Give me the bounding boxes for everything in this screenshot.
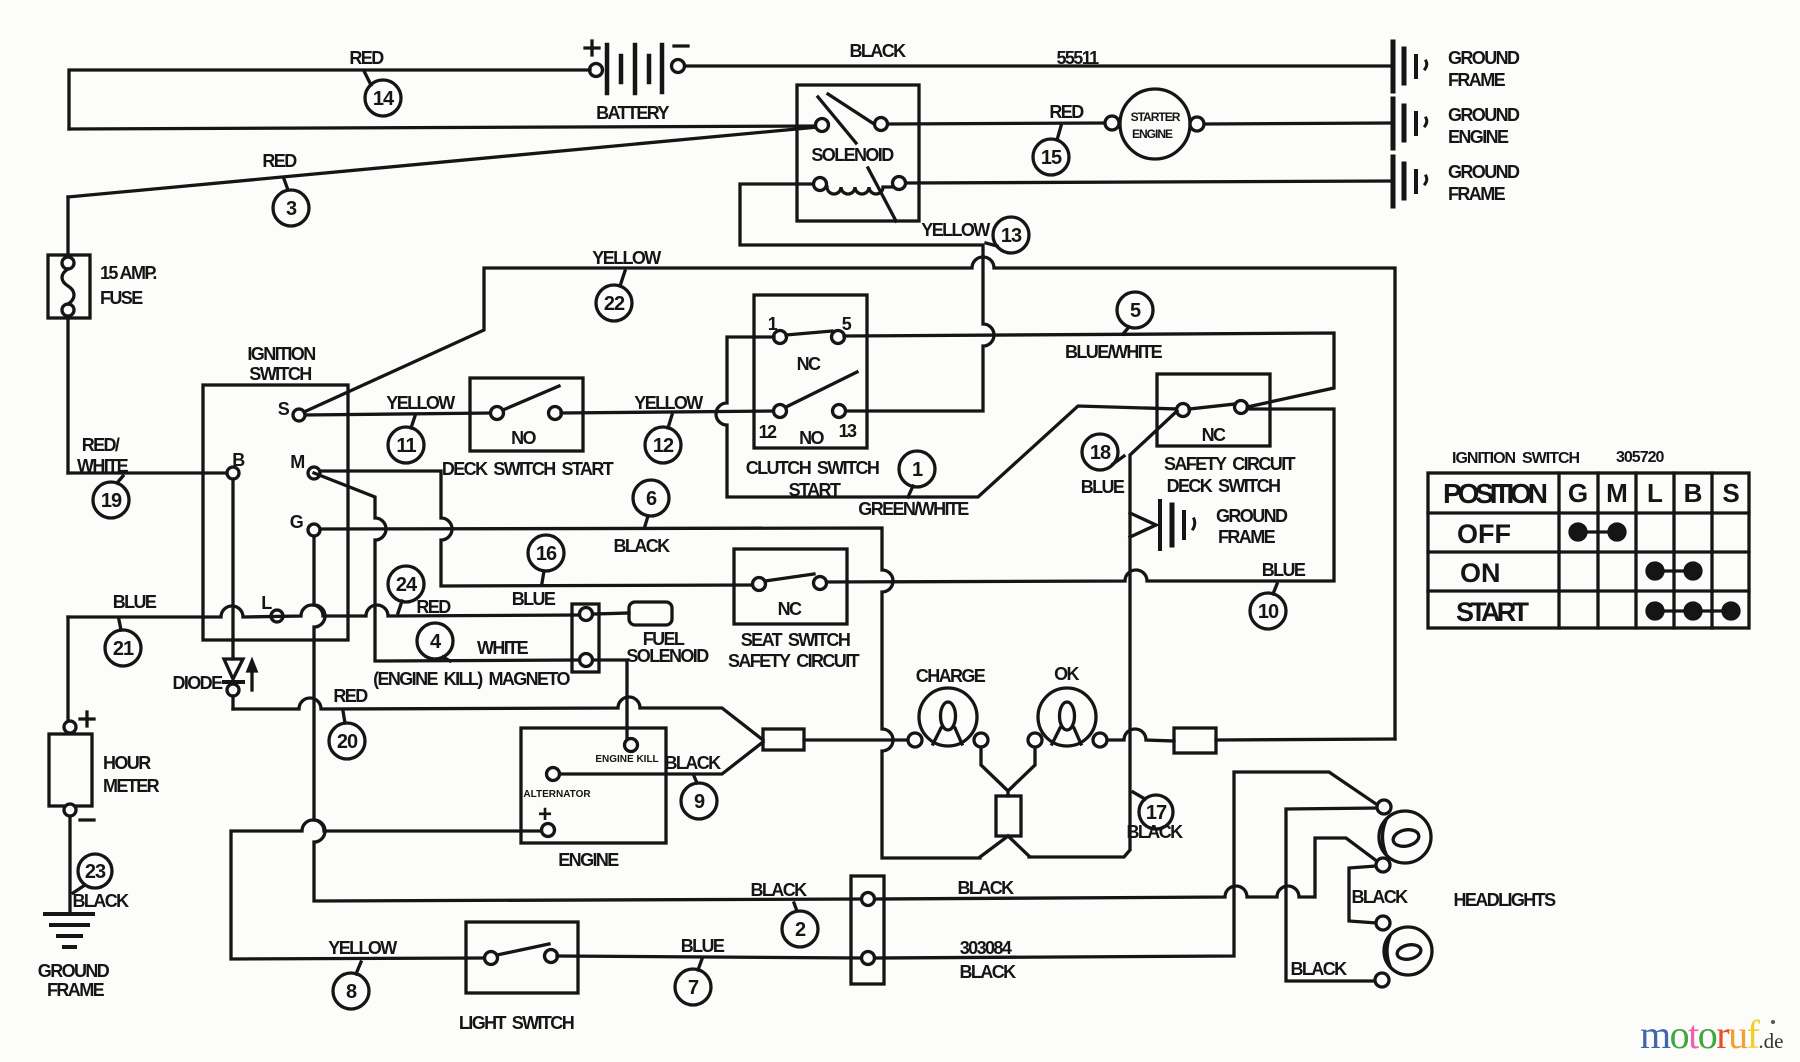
- svg-text:FRAME: FRAME: [47, 980, 105, 1000]
- svg-text:BLACK: BLACK: [73, 891, 130, 911]
- ground frame symbol top right 3: [1393, 157, 1427, 206]
- svg-text:POSITION: POSITION: [1443, 478, 1548, 509]
- svg-text:23: 23: [85, 861, 106, 883]
- svg-text:G: G: [290, 512, 303, 532]
- wire charge lamp to ok lamp with divider resistor: [981, 747, 1035, 796]
- svg-text:IGNITION: IGNITION: [247, 344, 315, 364]
- circle 17: [1133, 792, 1173, 829]
- fuel solenoid: [629, 602, 672, 625]
- svg-text:FUSE: FUSE: [100, 288, 143, 308]
- svg-text:RED: RED: [349, 48, 384, 68]
- wire BLACK 17 ok lamp to right resistor: [1107, 729, 1174, 741]
- wire RED 15 solenoid to starter: [888, 123, 1105, 124]
- circle 19: [93, 476, 129, 518]
- circle 7: [675, 959, 711, 1005]
- circle 11: [388, 416, 424, 463]
- svg-text:BLACK: BLACK: [1127, 822, 1184, 842]
- svg-text:SEAT SWITCH: SEAT SWITCH: [741, 630, 850, 650]
- wire alternator to charge resistor: [560, 742, 763, 774]
- svg-text:B: B: [232, 450, 245, 470]
- wire RED 20 diode to charge resistor: [233, 697, 763, 740]
- svg-text:OK: OK: [1054, 664, 1079, 684]
- svg-text:BLUE: BLUE: [681, 936, 725, 956]
- svg-text:BLACK: BLACK: [614, 536, 671, 556]
- svg-text:9: 9: [694, 791, 705, 813]
- svg-text:22: 22: [604, 293, 625, 315]
- svg-text:YELLOW: YELLOW: [386, 393, 455, 413]
- svg-text:BLUE: BLUE: [113, 592, 157, 612]
- svg-text:5: 5: [1130, 300, 1141, 322]
- solenoid box: [797, 85, 919, 221]
- wire starter to ground engine: [1204, 123, 1391, 124]
- safety circuit deck switch box NC: [1157, 374, 1270, 446]
- circle 10: [1250, 584, 1286, 629]
- circle 13: [986, 217, 1029, 253]
- svg-text:FRAME: FRAME: [1218, 527, 1276, 547]
- svg-text:14: 14: [373, 88, 395, 110]
- svg-text:BLUE: BLUE: [1262, 560, 1306, 580]
- svg-text:(ENGINE KILL) MAGNETO: (ENGINE KILL) MAGNETO: [373, 669, 570, 689]
- svg-text:15: 15: [1041, 147, 1062, 169]
- svg-text:10: 10: [1258, 601, 1279, 623]
- svg-text:FRAME: FRAME: [1448, 184, 1506, 204]
- svg-text:SOLENOID: SOLENOID: [626, 646, 709, 666]
- svg-text:M: M: [290, 452, 304, 472]
- svg-text:GROUND: GROUND: [1448, 48, 1520, 68]
- svg-text:BLACK: BLACK: [960, 962, 1017, 982]
- wire magneto to fuel solenoid: [593, 613, 629, 614]
- svg-text:55511: 55511: [1056, 48, 1099, 68]
- svg-text:START: START: [789, 480, 841, 500]
- magneto component: [572, 604, 599, 672]
- circle 14: [364, 71, 401, 116]
- circle 18: [1082, 434, 1124, 470]
- svg-text:BLACK: BLACK: [1352, 887, 1409, 907]
- circle 4: [417, 623, 453, 661]
- wire solenoid coil right to ground frame: [906, 181, 1391, 183]
- svg-text:11: 11: [396, 435, 416, 457]
- charge lamp CHARGE: [908, 688, 988, 747]
- svg-text:L: L: [1647, 478, 1663, 508]
- svg-text:20: 20: [337, 731, 358, 753]
- wire RED from battery loop to solenoid: [69, 126, 820, 129]
- svg-text:16: 16: [536, 543, 557, 565]
- battery BATTERY: [585, 41, 688, 93]
- svg-text:24: 24: [396, 574, 418, 596]
- svg-text:OFF: OFF: [1457, 519, 1511, 549]
- svg-text:SOLENOID: SOLENOID: [811, 145, 894, 165]
- svg-text:BLACK: BLACK: [850, 41, 907, 61]
- svg-text:SAFETY CIRCUIT: SAFETY CIRCUIT: [1164, 454, 1296, 474]
- wire magneto bottom to engine kill terminal: [593, 660, 627, 738]
- svg-text:RED: RED: [333, 686, 368, 706]
- wire BLUE 21 and RED 24 terminal L row to magneto: [68, 605, 579, 617]
- svg-text:+: +: [538, 801, 552, 828]
- svg-text:FRAME: FRAME: [1448, 70, 1506, 90]
- svg-text:HEADLIGHTS: HEADLIGHTS: [1453, 890, 1556, 910]
- svg-text:DECK SWITCH START: DECK SWITCH START: [442, 459, 614, 479]
- svg-text:GREEN/WHITE: GREEN/WHITE: [858, 499, 969, 519]
- fuse 15 AMP FUSE: [48, 197, 90, 473]
- diode vertical from terminal B: [224, 479, 243, 709]
- svg-text:DIODE: DIODE: [172, 673, 223, 693]
- wire battery positive RED 14: [69, 70, 590, 129]
- svg-text:SAFETY CIRCUIT: SAFETY CIRCUIT: [728, 651, 860, 671]
- circle 23: [73, 854, 112, 893]
- ignition switch box: [203, 385, 348, 640]
- svg-text:12: 12: [653, 435, 674, 457]
- svg-text:NC: NC: [778, 599, 802, 619]
- resistor charge circuit left: [763, 729, 804, 750]
- svg-text:18: 18: [1090, 442, 1111, 464]
- circle 20: [329, 711, 365, 759]
- svg-text:ON: ON: [1460, 558, 1501, 588]
- seat switch safety circuit box NC: [734, 549, 847, 624]
- svg-text:1: 1: [912, 459, 923, 481]
- svg-text:BLACK: BLACK: [958, 878, 1015, 898]
- wire BLACK jumper headlight 1 bottom to headlight 2 top: [1349, 866, 1377, 923]
- svg-text:12: 12: [759, 422, 777, 442]
- table contact dots ON L-B: [1647, 563, 1701, 579]
- ok lamp OK: [1028, 688, 1107, 747]
- svg-text:7: 7: [688, 977, 699, 999]
- circle 24: [388, 566, 424, 613]
- wire headlight 2 bottom loop to headlight 1 top: [1286, 808, 1378, 981]
- wire resistor to charge lamp: [804, 738, 908, 741]
- circle 21: [105, 620, 141, 666]
- svg-text:BLUE: BLUE: [512, 589, 556, 609]
- svg-text:HOUR: HOUR: [103, 753, 151, 773]
- headlight lamp 2: [1375, 916, 1432, 987]
- wire BLUE 10 safety deck switch to seat switch: [826, 409, 1334, 582]
- svg-text:NO: NO: [799, 428, 824, 448]
- svg-text:YELLOW: YELLOW: [592, 248, 661, 268]
- circle 12: [645, 415, 681, 463]
- svg-text:LIGHT SWITCH: LIGHT SWITCH: [459, 1013, 574, 1033]
- svg-text:IGNITION SWITCH: IGNITION SWITCH: [1452, 450, 1580, 467]
- svg-text:RED/: RED/: [82, 435, 120, 455]
- wire BLUE 18 safety deck switch to ground and 17 BLACK down: [1029, 411, 1177, 857]
- svg-text:13: 13: [1001, 225, 1022, 247]
- table contact dots OFF G-M: [1570, 524, 1625, 540]
- svg-text:YELLOW: YELLOW: [634, 393, 703, 413]
- wire divider resistor to bottom black wires: [980, 836, 1029, 857]
- wire RED/WHITE 19 fuse to terminal B: [68, 471, 227, 474]
- ground engine symbol top right 2: [1393, 99, 1427, 148]
- wire YELLOW 13 solenoid coil loop to clutch terminal 13: [740, 184, 994, 411]
- svg-text:B: B: [1684, 478, 1703, 508]
- circle 16: [528, 535, 564, 583]
- wire BLUE 16 terminal M to seat switch: [320, 471, 753, 586]
- circle 1: [899, 451, 935, 497]
- clutch switch start box: [754, 295, 867, 448]
- svg-text:RED: RED: [1049, 102, 1084, 122]
- svg-text:BLACK: BLACK: [751, 880, 808, 900]
- svg-text:M: M: [1606, 478, 1628, 508]
- starter motor STARTER ENGINE: [1105, 89, 1204, 159]
- ground frame symbol top right 1: [1393, 42, 1427, 91]
- ground frame symbol at safety deck switch: [1130, 501, 1195, 549]
- headlight lamp 1: [1376, 800, 1431, 872]
- wire right resistor to yellow 22 column: [1216, 739, 1395, 740]
- svg-text:S: S: [1722, 478, 1739, 508]
- svg-text:GROUND: GROUND: [1448, 105, 1520, 125]
- wire BLACK 2 terminal G down to connector and headlight: [314, 536, 860, 901]
- wire BLACK 23 hour meter to ground: [68, 816, 71, 913]
- svg-text:303084: 303084: [960, 938, 1012, 958]
- hour meter circuit wire BLUE 21 down: [66, 617, 69, 721]
- circle 5: [1117, 292, 1153, 334]
- svg-text:8: 8: [346, 981, 357, 1003]
- deck switch start box NO: [470, 378, 583, 451]
- svg-text:CLUTCH SWITCH: CLUTCH SWITCH: [746, 458, 879, 478]
- table contact dots START L-B-S: [1647, 603, 1739, 619]
- diode direction arrow: [248, 661, 256, 690]
- svg-text:YELLOW: YELLOW: [921, 220, 990, 240]
- svg-text:WHITE: WHITE: [77, 456, 129, 476]
- svg-text:21: 21: [113, 638, 134, 660]
- wire YELLOW 8 engine plus to light switch: [231, 820, 541, 959]
- connector block: [851, 876, 884, 984]
- light switch box: [466, 922, 578, 993]
- svg-text:NC: NC: [1202, 425, 1226, 445]
- svg-text:BATTERY: BATTERY: [596, 103, 669, 123]
- ground frame symbol bottom left: [45, 914, 93, 947]
- wire BLACK 6 terminal G to charge circuit: [320, 528, 980, 858]
- svg-text:ENGINE: ENGINE: [558, 850, 619, 870]
- engine box ENGINE: [521, 728, 666, 843]
- svg-text:305720: 305720: [1616, 449, 1664, 466]
- circle 15: [1033, 126, 1069, 175]
- svg-text:ENGINE: ENGINE: [1448, 127, 1509, 147]
- wire battery negative BLACK 55511 to ground: [685, 64, 1391, 67]
- svg-text:NO: NO: [511, 428, 536, 448]
- svg-text:ENGINE KILL: ENGINE KILL: [595, 754, 658, 765]
- wire BLUE 7 light switch to connector: [557, 956, 860, 958]
- svg-text:13: 13: [839, 421, 857, 441]
- svg-text:S: S: [278, 399, 290, 419]
- circle 2: [782, 903, 818, 947]
- svg-text:METER: METER: [103, 776, 160, 796]
- svg-text:3: 3: [286, 198, 297, 220]
- svg-text:G: G: [1568, 478, 1588, 508]
- svg-text:GROUND: GROUND: [1216, 506, 1288, 526]
- svg-text:SWITCH: SWITCH: [249, 364, 311, 384]
- svg-text:15 AMP.: 15 AMP.: [100, 263, 156, 283]
- circle 3: [273, 179, 309, 226]
- svg-text:DECK SWITCH: DECK SWITCH: [1167, 476, 1280, 496]
- wire RED 3 diagonal fuse to solenoid: [68, 127, 818, 197]
- svg-text:NC: NC: [797, 354, 821, 374]
- svg-text:17: 17: [1146, 802, 1167, 824]
- circle 9: [681, 776, 717, 819]
- svg-text:ENGINE: ENGINE: [1132, 127, 1173, 141]
- circle 22: [596, 271, 632, 321]
- wire BLACK connector to headlight 1 bottom: [875, 838, 1378, 899]
- svg-text:GROUND: GROUND: [38, 961, 110, 981]
- resistor divider vertical: [996, 796, 1021, 836]
- svg-text:START: START: [1456, 597, 1530, 627]
- svg-text:WHITE: WHITE: [477, 638, 529, 658]
- circle 6: [633, 480, 669, 526]
- wire 303084 BLACK connector to headlight 1 top: [875, 772, 1379, 958]
- circle 8: [333, 962, 369, 1009]
- svg-text:L: L: [261, 593, 272, 613]
- hour meter HOUR METER: [49, 712, 94, 820]
- wire BLUE/WHITE 5 clutch terminal 5 to safety deck switch: [844, 333, 1334, 407]
- svg-text:19: 19: [101, 490, 122, 512]
- svg-text:2: 2: [795, 919, 806, 941]
- svg-text:YELLOW: YELLOW: [328, 938, 397, 958]
- ignition switch table grid: [1428, 473, 1749, 628]
- wire YELLOW 12 deck switch to clutch terminal 12: [561, 411, 774, 413]
- svg-text:RED: RED: [416, 597, 451, 617]
- wire YELLOW 22 from terminal S loop to right column: [304, 257, 1395, 739]
- svg-text:6: 6: [646, 488, 657, 510]
- svg-text:BLACK: BLACK: [665, 753, 722, 773]
- svg-text:RED: RED: [262, 151, 297, 171]
- svg-text:GROUND: GROUND: [1448, 162, 1520, 182]
- wire GREEN/WHITE 1 clutch terminal 1 to safety deck switch: [716, 337, 1178, 497]
- svg-text:ALTERNATOR: ALTERNATOR: [523, 789, 591, 800]
- svg-text:CHARGE: CHARGE: [916, 666, 986, 686]
- resistor right: [1174, 728, 1216, 753]
- svg-text:BLUE: BLUE: [1081, 477, 1125, 497]
- svg-text:STARTER: STARTER: [1131, 110, 1181, 124]
- svg-text:BLUE/WHITE: BLUE/WHITE: [1065, 342, 1163, 362]
- wire WHITE 4 terminal M blade to magneto engine kill: [314, 473, 579, 661]
- svg-text:BLACK: BLACK: [1291, 959, 1348, 979]
- wire YELLOW 11 terminal S to deck switch: [305, 413, 491, 415]
